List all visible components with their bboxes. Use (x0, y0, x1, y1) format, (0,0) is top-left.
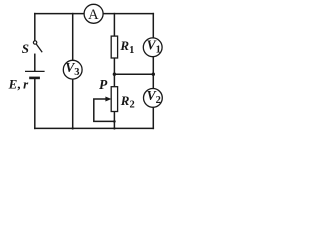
wire wiper arm (94, 99, 115, 121)
svg-text:P: P (99, 77, 108, 92)
voltmeter V3 (63, 60, 82, 79)
wire top (35, 13, 154, 15)
junction dot mid wire right (152, 73, 155, 76)
wire right vertical upper (152, 14, 154, 38)
switch S blade (36, 44, 42, 52)
svg-text:A: A (88, 7, 99, 23)
voltmeter V2 (144, 89, 163, 108)
junction dot R2 branch at bottom wire (113, 127, 115, 129)
wire between R1 and R2 (113, 58, 115, 87)
ammeter A (84, 4, 103, 23)
wire middle horizontal (114, 73, 153, 75)
wire bottom (35, 127, 154, 129)
resistor R1 (111, 36, 117, 58)
wire right vertical lower (152, 107, 154, 128)
wire below R2 (113, 112, 115, 129)
junction dot at R1-R2 midpoint (113, 73, 116, 76)
wire right vertical middle (152, 57, 154, 89)
wire left vertical lower (34, 78, 36, 128)
wire left vertical middle (34, 54, 36, 71)
svg-text:S: S (22, 41, 29, 56)
wire middle branch upper (113, 14, 115, 36)
voltmeter V1 (143, 38, 162, 57)
svg-text:E, r: E, r (8, 76, 30, 91)
wire V3 branch lower (72, 79, 74, 128)
wire left vertical upper (34, 14, 36, 41)
junction dot V3 branch at bottom wire (72, 127, 74, 129)
rheostat R2 (111, 87, 117, 112)
wire V3 branch upper (72, 14, 74, 61)
switch S pivot (33, 41, 36, 44)
junction dot wiper to bottom branch (113, 120, 116, 123)
battery long plate (25, 70, 45, 72)
battery short plate (29, 77, 40, 80)
wiper arrowhead (105, 97, 111, 102)
